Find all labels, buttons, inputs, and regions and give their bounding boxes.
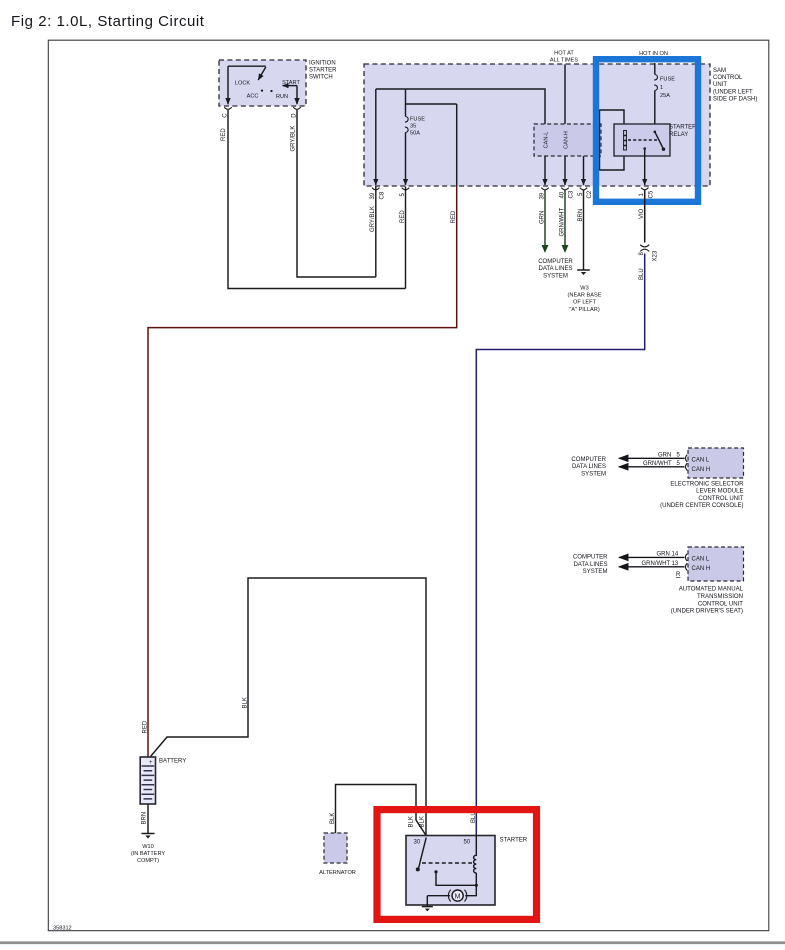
svg-text:SYSTEM: SYSTEM bbox=[581, 471, 606, 477]
svg-text:M: M bbox=[455, 893, 461, 900]
svg-text:CONTROL UNIT: CONTROL UNIT bbox=[698, 496, 743, 502]
svg-text:50: 50 bbox=[464, 839, 471, 845]
svg-text:X23: X23 bbox=[653, 250, 659, 261]
svg-text:RED: RED bbox=[400, 210, 406, 223]
svg-text:GRN: GRN bbox=[657, 552, 670, 558]
svg-text:RED: RED bbox=[221, 128, 227, 141]
svg-text:(UNDER DRIVER'S SEAT): (UNDER DRIVER'S SEAT) bbox=[671, 609, 743, 615]
svg-text:W10: W10 bbox=[142, 844, 154, 850]
svg-text:BLK: BLK bbox=[243, 697, 249, 708]
svg-text:BATTERY: BATTERY bbox=[159, 758, 186, 764]
svg-text:ALL TIMES: ALL TIMES bbox=[550, 58, 579, 64]
svg-text:COMPUTER: COMPUTER bbox=[538, 259, 573, 265]
svg-text:SYSTEM: SYSTEM bbox=[543, 273, 568, 279]
svg-text:13: 13 bbox=[672, 561, 679, 567]
svg-text:UNIT: UNIT bbox=[713, 82, 727, 88]
svg-text:LOCK: LOCK bbox=[235, 81, 251, 87]
svg-text:C2: C2 bbox=[587, 190, 593, 198]
svg-text:TRANSMISSION: TRANSMISSION bbox=[697, 594, 743, 600]
svg-text:GRY/BLK: GRY/BLK bbox=[370, 206, 376, 232]
svg-text:30: 30 bbox=[414, 839, 421, 845]
svg-text:SWITCH: SWITCH bbox=[309, 75, 333, 81]
svg-text:BRN: BRN bbox=[141, 812, 147, 825]
svg-text:14: 14 bbox=[672, 552, 679, 558]
svg-text:C5: C5 bbox=[648, 190, 654, 198]
svg-text:W3: W3 bbox=[580, 285, 588, 291]
svg-text:CAN-H: CAN-H bbox=[564, 131, 570, 149]
svg-text:GRN/WHT: GRN/WHT bbox=[642, 561, 671, 567]
svg-text:1: 1 bbox=[660, 85, 663, 91]
svg-text:GRY/BLK: GRY/BLK bbox=[291, 126, 297, 152]
svg-text:25A: 25A bbox=[660, 93, 670, 99]
svg-text:AUTOMATED MANUAL: AUTOMATED MANUAL bbox=[679, 587, 744, 593]
svg-text:BLK: BLK bbox=[330, 813, 336, 824]
svg-text:RELAY: RELAY bbox=[669, 132, 688, 138]
svg-text:+: + bbox=[149, 760, 153, 766]
svg-text:"A" PILLAR): "A" PILLAR) bbox=[569, 307, 600, 313]
svg-text:(IN BATTERY: (IN BATTERY bbox=[131, 851, 166, 857]
svg-text:STARTER: STARTER bbox=[500, 838, 528, 844]
svg-text:CONTROL UNIT: CONTROL UNIT bbox=[698, 601, 743, 607]
svg-text:STARTER: STARTER bbox=[669, 125, 697, 131]
svg-text:HOT AT: HOT AT bbox=[554, 50, 574, 56]
svg-text:39: 39 bbox=[370, 192, 376, 199]
svg-text:RUN: RUN bbox=[276, 94, 288, 100]
svg-text:SYSTEM: SYSTEM bbox=[583, 569, 608, 575]
svg-text:ALTERNATOR: ALTERNATOR bbox=[319, 870, 356, 876]
svg-text:SAM: SAM bbox=[713, 68, 726, 74]
svg-text:BLK: BLK bbox=[408, 816, 414, 827]
svg-text:(UNDER CENTER CONSOLE): (UNDER CENTER CONSOLE) bbox=[660, 503, 743, 509]
svg-text:C8: C8 bbox=[380, 191, 386, 199]
svg-text:CAN L: CAN L bbox=[692, 557, 710, 563]
svg-text:ELECTRONIC SELECTOR: ELECTRONIC SELECTOR bbox=[670, 481, 744, 487]
svg-text:C3: C3 bbox=[569, 190, 575, 198]
svg-text:DATA LINES: DATA LINES bbox=[538, 266, 572, 272]
svg-text:BLK: BLK bbox=[420, 816, 426, 827]
svg-text:FUSE: FUSE bbox=[660, 76, 675, 82]
svg-text:FUSE: FUSE bbox=[410, 116, 425, 122]
svg-text:R: R bbox=[676, 572, 681, 578]
svg-text:DATA LINES: DATA LINES bbox=[573, 562, 607, 568]
svg-text:IGNITION: IGNITION bbox=[309, 60, 336, 66]
svg-text:358312: 358312 bbox=[53, 925, 72, 931]
svg-text:GRN: GRN bbox=[658, 452, 671, 458]
svg-text:SIDE OF DASH): SIDE OF DASH) bbox=[713, 97, 757, 103]
svg-text:(UNDER LEFT: (UNDER LEFT bbox=[713, 89, 753, 95]
svg-text:CONTROL: CONTROL bbox=[713, 75, 743, 81]
svg-text:DATA LINES: DATA LINES bbox=[572, 464, 606, 470]
svg-text:CAN L: CAN L bbox=[692, 458, 710, 464]
svg-text:35: 35 bbox=[410, 124, 416, 130]
svg-text:COMPUTER: COMPUTER bbox=[573, 555, 608, 561]
svg-text:COMPT): COMPT) bbox=[137, 858, 159, 864]
svg-text:(NEAR BASE: (NEAR BASE bbox=[568, 293, 602, 299]
svg-text:STARTER: STARTER bbox=[309, 68, 337, 74]
svg-text:CAN-L: CAN-L bbox=[544, 132, 550, 149]
svg-text:ACC: ACC bbox=[247, 94, 259, 100]
svg-text:CAN H: CAN H bbox=[692, 467, 711, 473]
svg-text:50A: 50A bbox=[410, 131, 420, 137]
svg-text:GRN/WHT: GRN/WHT bbox=[643, 461, 672, 467]
svg-text:Fig 2: 1.0L, Starting Circuit: Fig 2: 1.0L, Starting Circuit bbox=[11, 13, 205, 30]
svg-text:OF LEFT: OF LEFT bbox=[573, 300, 597, 306]
svg-text:LEVER MODULE: LEVER MODULE bbox=[696, 489, 743, 495]
svg-text:CAN H: CAN H bbox=[692, 566, 711, 572]
svg-text:COMPUTER: COMPUTER bbox=[571, 457, 606, 463]
svg-text:START: START bbox=[282, 80, 300, 86]
svg-text:RED: RED bbox=[143, 720, 149, 733]
svg-text:HOT IN ON: HOT IN ON bbox=[639, 51, 668, 57]
